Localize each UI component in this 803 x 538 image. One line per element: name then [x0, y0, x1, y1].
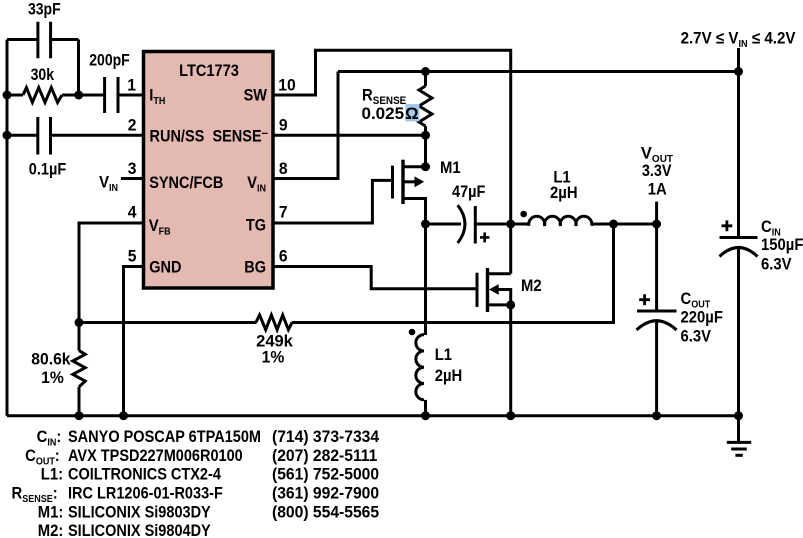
label 0.025 ohm [362, 104, 419, 123]
component list phone y479 [272, 465, 379, 483]
resistor RSENSE 0.025ohm [419, 72, 432, 136]
label 150uF [761, 236, 803, 254]
label LTC1773 [179, 62, 239, 80]
pin number 1 [127, 76, 136, 94]
node dot M2 source [506, 300, 515, 309]
component list phone y517 [272, 503, 379, 521]
component list label y479 [41, 466, 63, 484]
pin number 10 [278, 76, 295, 94]
phase dot L1 horizontal [520, 211, 527, 218]
node dot L1 right VOUT [609, 220, 618, 229]
label input range 2.7V-4.2V [681, 30, 796, 50]
label 80.6k [31, 350, 70, 368]
node dot rail GND pin [119, 411, 128, 420]
node dot feedback divider [75, 318, 84, 327]
svg-text:9: 9 [279, 116, 288, 134]
pin number 4 [128, 203, 137, 221]
label 1% of 249k [262, 348, 285, 366]
node dot VOUT COUT [652, 220, 661, 229]
node dot rail CIN ground [734, 411, 743, 420]
svg-text:220µF: 220µF [681, 309, 724, 327]
label 2uH horizontal [550, 184, 578, 202]
resistor 249k [256, 315, 292, 330]
label 3.3V [642, 162, 672, 180]
pin number 8 [279, 159, 288, 177]
node dot rail M2 source [506, 411, 515, 420]
label 30k [31, 66, 55, 84]
label CIN [761, 218, 781, 238]
node dot rail L1 vertical [421, 411, 430, 420]
wire pin5 GND to rail [124, 267, 144, 416]
pin label VIN inside [247, 174, 266, 194]
highlight box on ohm symbol [405, 104, 419, 121]
wire BG to M2 gate [275, 267, 476, 289]
svg-text:(207) 282-5111: (207) 282-5111 [272, 446, 377, 464]
svg-text:SILICONIX Si9804DY: SILICONIX Si9804DY [68, 522, 211, 538]
pin label SW [244, 87, 268, 105]
capacitor C 33pF [7, 22, 79, 95]
plus polarity mark CIN [722, 220, 733, 231]
svg-text:SILICONIX Si9803DY: SILICONIX Si9803DY [68, 503, 211, 521]
transistor M1 body arrow [415, 176, 425, 187]
svg-text:0.025Ω: 0.025Ω [362, 104, 419, 123]
svg-text:LTC1773: LTC1773 [179, 62, 239, 80]
svg-text:AVX TPSD227M006R0100: AVX TPSD227M006R0100 [68, 447, 243, 465]
pin number 5 [128, 247, 137, 265]
component list label y460 [25, 447, 60, 467]
node dot switch node [506, 220, 515, 229]
svg-text:BG: BG [244, 259, 266, 277]
node dot 0.1uF left rail [3, 131, 12, 140]
svg-text:L1:: L1: [41, 466, 63, 484]
inductor L1 vertical 2uH [416, 224, 426, 416]
wire pin9 SENSE- [275, 134, 426, 137]
transistor M1 body [393, 135, 426, 224]
plus polarity mark COUT [639, 294, 650, 305]
svg-text:3: 3 [128, 159, 137, 177]
label COUT [681, 290, 711, 310]
svg-text:10: 10 [278, 76, 295, 94]
svg-text:L1: L1 [435, 346, 453, 364]
svg-text:1A: 1A [648, 181, 667, 199]
svg-text:(561) 752-5000: (561) 752-5000 [272, 465, 379, 483]
wire pin10 SW to switch node [275, 50, 511, 224]
node dot pin1 left rail [3, 91, 12, 100]
svg-text:M2: M2 [521, 277, 542, 295]
component list label y517 [38, 504, 64, 522]
component list phone y442 [272, 428, 379, 446]
resistor 80.6k [73, 323, 85, 416]
svg-text:COILTRONICS CTX2-4: COILTRONICS CTX2-4 [68, 466, 221, 484]
component list phone y498 [272, 484, 379, 502]
node dot M1 drain [421, 162, 430, 171]
svg-text:4: 4 [128, 203, 137, 221]
svg-text:6: 6 [279, 247, 288, 265]
svg-text:SW: SW [244, 87, 268, 105]
wire pin8 VIN riser [275, 72, 339, 179]
component list value y536 [68, 522, 211, 538]
label 2uH vertical [435, 367, 463, 385]
capacitor C 47uF flying [426, 205, 511, 243]
node dot SENSE [421, 131, 430, 140]
wire TG to M1 gate [275, 180, 392, 223]
component list value y517 [68, 503, 211, 521]
svg-text:5: 5 [128, 247, 137, 265]
capacitor C 0.1uF [7, 117, 144, 155]
svg-text:2.7V ≤ VIN ≤ 4.2V: 2.7V ≤ VIN ≤ 4.2V [681, 30, 796, 50]
label M2 [521, 277, 542, 295]
pin label SENSE- [212, 125, 268, 145]
label 249k [256, 333, 294, 351]
component list value y498 [68, 485, 223, 503]
wire VIN input stub and CIN branch [737, 48, 740, 238]
svg-text:2: 2 [128, 116, 137, 134]
svg-text:150µF: 150µF [761, 236, 803, 254]
wire VIN top rail [338, 70, 739, 73]
wire pin4 VFB to feedback node [79, 223, 144, 323]
node dot 30k/200pF junction [74, 91, 83, 100]
wire pin3 SYNC/FCB stub [121, 177, 144, 180]
pin number 9 [279, 116, 288, 134]
svg-text:80.6k: 80.6k [31, 350, 70, 368]
svg-text:2µH: 2µH [435, 367, 463, 385]
capacitor C 200pF [105, 77, 144, 113]
label M1 [440, 159, 461, 177]
pin label RUN/SS [150, 128, 205, 146]
svg-text:SYNC/FCB: SYNC/FCB [149, 174, 223, 192]
pin number 2 [128, 116, 137, 134]
pin number 3 [128, 159, 137, 177]
label VOUT [641, 145, 673, 166]
pin label VFB [149, 217, 171, 237]
svg-text:3.3V: 3.3V [642, 162, 672, 180]
pin label TG [246, 217, 266, 235]
svg-text:1%: 1% [262, 348, 285, 366]
wire feedback line to VOUT riser [79, 224, 614, 323]
svg-text:1%: 1% [41, 369, 64, 387]
svg-text:SANYO POSCAP 6TPA150M: SANYO POSCAP 6TPA150M [68, 428, 261, 446]
label 1% of 80.6k [41, 369, 64, 387]
wire bottom ground rail [7, 414, 739, 417]
svg-text:(800) 554-5565: (800) 554-5565 [272, 503, 379, 521]
inductor L1 horizontal 2uH [511, 216, 657, 226]
label 6.3V of CIN [761, 256, 792, 274]
svg-text:30k: 30k [31, 66, 55, 84]
svg-text:47µF: 47µF [452, 183, 485, 201]
pin label BG [244, 259, 266, 277]
capacitor CIN 150uF [720, 238, 758, 416]
svg-text:6.3V: 6.3V [681, 328, 712, 346]
svg-text:IRC LR1206-01-R033-F: IRC LR1206-01-R033-F [68, 485, 223, 503]
component list label y536 [38, 522, 64, 538]
svg-text:M1: M1 [440, 159, 461, 177]
pin label SYNC/FCB [149, 174, 223, 192]
wire VOUT stub [655, 202, 658, 224]
pin label GND [149, 259, 181, 277]
component list phone y460 [272, 446, 377, 464]
node dot VIN CIN branch [734, 67, 743, 76]
svg-text:GND: GND [149, 259, 181, 277]
svg-text:SENSE–: SENSE– [212, 125, 268, 145]
wire left rail [6, 40, 9, 416]
svg-text:7: 7 [279, 203, 288, 221]
svg-text:0.1µF: 0.1µF [29, 161, 66, 179]
svg-text:1: 1 [127, 76, 136, 94]
node dot rail COUT [652, 411, 661, 420]
pin label ITH [149, 87, 165, 107]
label 6.3V of COUT [681, 328, 712, 346]
svg-text:33pF: 33pF [28, 1, 61, 19]
svg-text:M2:: M2: [38, 522, 64, 538]
IC U1 LTC1773 box [144, 52, 274, 289]
node dot rail 80.6k [75, 411, 84, 420]
transistor M2 body [477, 224, 511, 416]
label VIN at pin3 [99, 174, 118, 194]
node dot flying cap left [421, 220, 430, 229]
label L1 horizontal [553, 169, 571, 187]
pin number 6 [279, 247, 288, 265]
label RSENSE [362, 87, 406, 107]
pin number 7 [279, 203, 288, 221]
label 47uF [452, 183, 485, 201]
component list value y460 [68, 447, 243, 465]
resistor 30k [7, 88, 105, 103]
label 33pF [28, 1, 61, 19]
plus polarity mark 47uF [480, 232, 490, 242]
svg-text:6.3V: 6.3V [761, 256, 792, 274]
label 0.1uF [29, 161, 66, 179]
node dot RSENSE top VIN [421, 67, 430, 76]
svg-text:TG: TG [246, 217, 266, 235]
svg-text:8: 8 [279, 159, 288, 177]
phase dot L1 vertical [409, 329, 416, 336]
component list value y442 [68, 428, 261, 446]
capacitor COUT 220uF [637, 224, 677, 416]
svg-text:M1:: M1: [38, 504, 64, 522]
component list label y442 [37, 428, 62, 448]
svg-text:RUN/SS: RUN/SS [150, 128, 205, 146]
svg-text:(714) 373-7334: (714) 373-7334 [272, 428, 379, 446]
label L1 vertical [435, 346, 453, 364]
svg-text:200pF: 200pF [89, 51, 130, 69]
ground symbol [727, 416, 751, 456]
label 200pF [89, 51, 130, 69]
component list label y498 [12, 485, 58, 505]
label 220uF [681, 309, 724, 327]
component list value y479 [68, 466, 221, 484]
svg-text:2µH: 2µH [550, 184, 578, 202]
label 1A [648, 181, 667, 199]
transistor M2 body arrow [489, 284, 499, 295]
svg-text:(361) 992-7900: (361) 992-7900 [272, 484, 379, 502]
